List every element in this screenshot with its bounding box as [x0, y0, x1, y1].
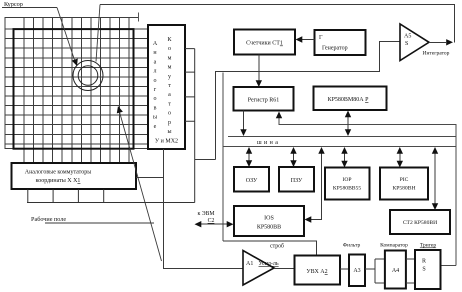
svg-text:Генератор: Генератор — [322, 46, 348, 52]
svg-text:У и МХ2: У и МХ2 — [155, 139, 178, 145]
svg-text:р: р — [168, 120, 171, 126]
svg-text:Г: Г — [319, 35, 323, 41]
svg-text:КР580ВВ: КР580ВВ — [257, 225, 281, 231]
svg-text:R: R — [422, 259, 426, 265]
trigger box R S — [415, 250, 441, 289]
svg-text:строб: строб — [270, 243, 284, 250]
wire Y commutator to amplifier A1 — [163, 149, 243, 269]
svg-text:А: А — [153, 41, 158, 47]
svg-text:о: о — [168, 111, 171, 117]
svg-text:о: о — [168, 46, 171, 52]
box СТ2 КР580ВИ — [390, 210, 450, 234]
wire Генератор to Счетчики — [302, 39, 315, 41]
svg-text:о: о — [154, 78, 157, 84]
wires А4 to trigger — [406, 259, 415, 283]
svg-text:СТ2 КР580ВИ: СТ2 КР580ВИ — [403, 220, 437, 226]
svg-text:IOP: IOP — [342, 177, 351, 183]
svg-text:ы: ы — [167, 129, 171, 135]
box А4 — [385, 251, 406, 289]
integrator output arrow — [429, 41, 446, 43]
box ОЗУ — [234, 167, 269, 192]
svg-text:Рабочие поле: Рабочие поле — [31, 216, 66, 223]
grid top line end tick — [138, 13, 140, 22]
op-amp A1 — [243, 251, 274, 286]
svg-text:С2: С2 — [208, 218, 215, 224]
svg-text:координаты Х Х1: координаты Х Х1 — [36, 178, 81, 184]
wire integrator output to cursor — [100, 5, 455, 43]
svg-text:PIC: PIC — [400, 177, 409, 183]
cursor circles — [73, 61, 103, 91]
box IOS КР580ВВ — [234, 206, 304, 236]
arrows bus to ПЗУ — [293, 151, 295, 162]
svg-text:Усил-ль: Усил-ль — [259, 261, 279, 267]
svg-text:а: а — [168, 92, 171, 98]
svg-text:КР580ВВ55: КР580ВВ55 — [333, 186, 361, 192]
svg-text:Тригер: Тригер — [420, 243, 436, 249]
box PIC КР580ВН — [380, 168, 428, 200]
wire Счетчики to Регистр — [258, 55, 260, 82]
wire X box right to Y signal line — [136, 176, 163, 178]
wire A1 to УВХ — [274, 268, 295, 270]
svg-text:ы: ы — [153, 115, 157, 121]
arrows bus to СТ2 — [434, 151, 436, 205]
svg-text:о: о — [154, 96, 157, 102]
box Аналоговые коммутаторы координаты Х Х1 — [12, 163, 137, 189]
svg-text:IOS: IOS — [264, 216, 274, 222]
svg-text:л: л — [154, 69, 157, 75]
tablet grid — [5, 17, 149, 148]
svg-text:а: а — [154, 59, 157, 65]
comb grid to X commutator — [24, 149, 129, 163]
svg-text:А5: А5 — [404, 34, 411, 40]
X commutator output bus — [27, 190, 195, 203]
op-amp A5 integrator — [400, 24, 429, 61]
svg-text:Аналоговые коммутаторы: Аналоговые коммутаторы — [25, 170, 91, 176]
box Регистр R61 — [234, 87, 294, 111]
svg-text:Интегратор: Интегратор — [423, 51, 450, 57]
svg-text:КР580ВН: КР580ВН — [392, 186, 415, 192]
svg-text:к ЭВМ: к ЭВМ — [197, 211, 214, 217]
wire УВХ to А3 — [340, 268, 349, 270]
svg-text:А1: А1 — [246, 261, 253, 267]
arrows КР580ВМ80А to bus — [347, 115, 349, 131]
svg-text:у: у — [168, 74, 171, 80]
svg-text:Фильтр: Фильтр — [343, 243, 361, 249]
box Аналоговые коммутаторы У и МХ2 — [148, 25, 185, 149]
box ПЗУ — [279, 167, 314, 192]
ladder Y commutator to MX2 rail — [185, 49, 195, 203]
bus lines шина — [223, 137, 456, 147]
svg-text:т: т — [168, 83, 171, 89]
svg-text:м: м — [168, 65, 172, 71]
tablet border — [14, 29, 134, 149]
box КР580ВМ80А Р — [314, 87, 387, 111]
svg-text:Регистр R61: Регистр R61 — [248, 98, 279, 104]
left control rail — [222, 73, 224, 242]
svg-text:Счетчики СТ1: Счетчики СТ1 — [246, 41, 283, 47]
строб wire — [223, 241, 317, 255]
wire bus to IOS — [308, 150, 322, 220]
svg-text:шина: шина — [257, 140, 280, 146]
svg-text:УВХ А2: УВХ А2 — [306, 269, 327, 275]
svg-text:Курсор: Курсор — [4, 1, 23, 8]
svg-text:S: S — [422, 267, 425, 273]
svg-text:Компаратор: Компаратор — [380, 243, 408, 249]
svg-text:А3: А3 — [353, 268, 360, 274]
box Генератор — [315, 30, 366, 55]
svg-text:S: S — [405, 41, 408, 47]
svg-text:ОЗУ: ОЗУ — [246, 178, 258, 184]
arrows bus to ОЗУ — [248, 151, 250, 162]
wire А3 to А4 bracket — [365, 259, 385, 283]
svg-text:т: т — [168, 101, 171, 107]
svg-text:А4: А4 — [392, 268, 399, 274]
box IOP КР580ВВ55 — [325, 168, 370, 200]
integrator input wire — [195, 42, 400, 160]
right rail — [279, 114, 456, 266]
svg-text:м: м — [168, 55, 172, 61]
svg-text:е: е — [154, 124, 157, 130]
box А3 — [349, 255, 365, 287]
arrows bus to PIC — [399, 151, 401, 163]
double arrow к ЭВМ — [199, 223, 229, 225]
arrows bus to IOP — [344, 151, 346, 163]
svg-text:КР580ВМ80А Р: КР580ВМ80А Р — [328, 97, 370, 103]
box УВХ А2 — [295, 256, 341, 285]
box Счетчики СТ1 — [234, 30, 295, 55]
leader Рабочее поле — [45, 222, 154, 224]
leader Курсор — [2, 7, 57, 9]
arrow Регистр to bus — [243, 111, 245, 131]
svg-text:ПЗУ: ПЗУ — [291, 178, 303, 184]
svg-text:в: в — [154, 105, 157, 111]
